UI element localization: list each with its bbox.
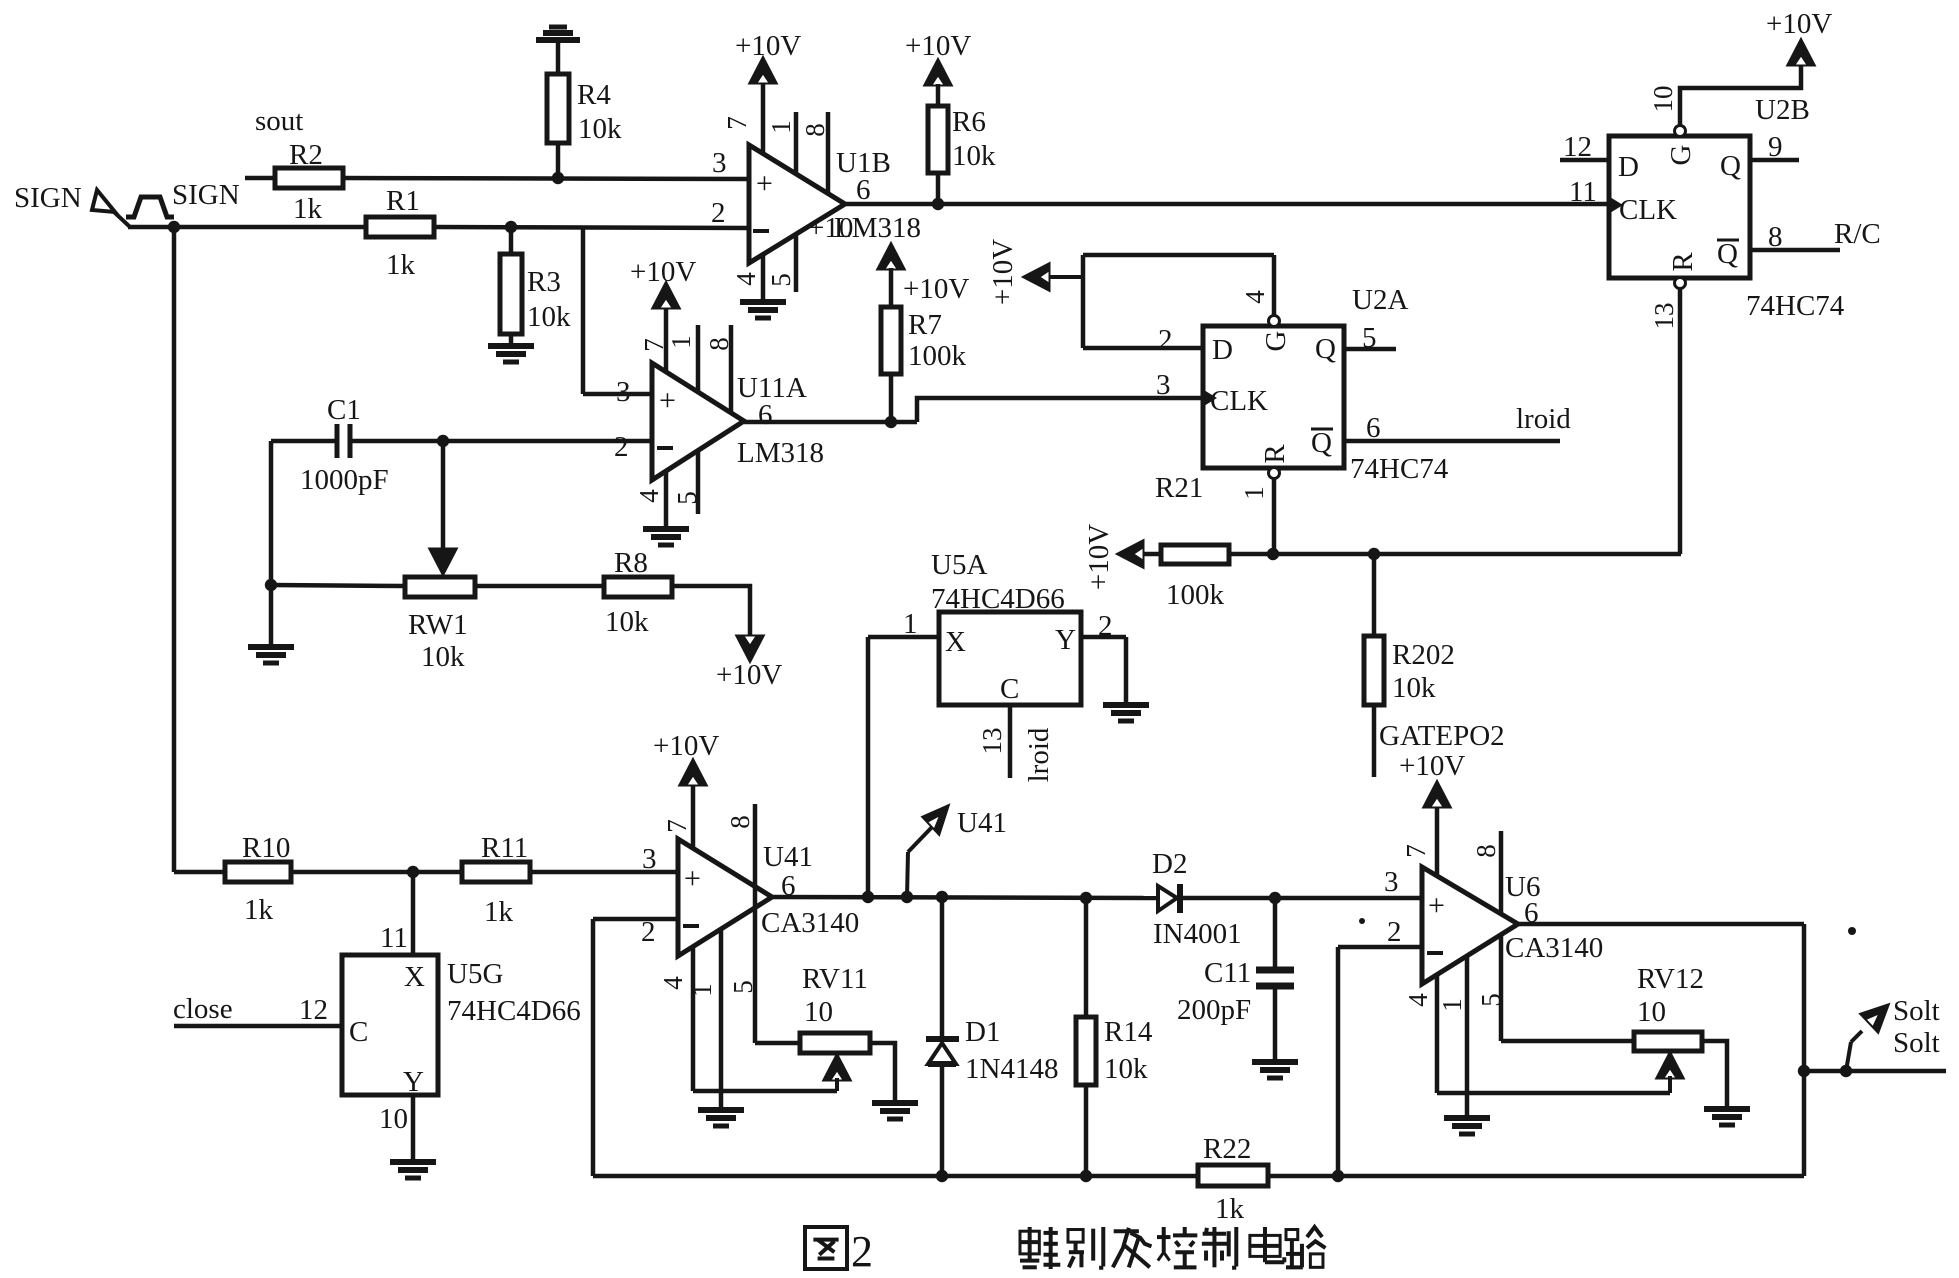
wire C11 top lead [1273,898,1278,970]
svg-text:R3: R3 [527,266,561,298]
wire jog to U2A CLK [917,398,1203,422]
resistor R6 [928,106,996,173]
svg-text:1k: 1k [244,894,274,926]
wire U41 feedback vertical [591,919,596,1176]
pin 7 U1B [722,80,763,154]
wire R11 to U41 pin3 [530,870,678,875]
wire C1 left lead [271,439,337,444]
svg-text:1k: 1k [293,193,323,225]
wire R2 to U1B pin3 [343,178,750,179]
svg-text:10: 10 [1648,86,1678,113]
wire U2B R to reset line [1649,288,1680,554]
resistor R14 [1076,1016,1153,1085]
svg-text:6: 6 [758,399,773,431]
svg-text:lroid: lroid [1516,403,1571,435]
svg-text:1: 1 [687,983,717,997]
junction R14/output [1080,892,1092,904]
junction R6/output [932,198,944,210]
pin 5 U6 [1476,935,1506,1041]
power +10V at U2A D/G [987,239,1083,305]
wire RV11 right to ground [870,1043,895,1103]
pin 8 U41 [725,804,755,887]
svg-text:10k: 10k [952,140,996,172]
wire D1 bottom lead [940,1064,945,1176]
svg-text:U5A: U5A [931,549,987,581]
svg-text:LM318: LM318 [737,437,824,469]
svg-text:IN4001: IN4001 [1153,918,1242,950]
node SIGN wire label [172,179,240,211]
pin 2 label U1B [711,197,726,229]
wire R3 to ground [509,334,514,346]
pin 12 U2B wire [1560,131,1609,163]
junction Solt/feedback [1798,1065,1810,1077]
svg-text:Q: Q [1315,333,1336,365]
svg-text:CLK: CLK [1619,194,1677,226]
svg-text:CLK: CLK [1210,385,1268,417]
pin 3 label U11A [616,376,631,408]
power +10V at U6 pin7 [1399,750,1465,807]
pin 8 U6 [1471,831,1501,914]
wire U2A R to reset line [1239,478,1274,554]
svg-text:R14: R14 [1104,1016,1153,1048]
svg-text:100k: 100k [908,340,967,372]
svg-text:R: R [1259,444,1291,464]
RV11 wiper arrow [824,1055,850,1091]
junction Solt-flag/wire [1840,1065,1852,1077]
wire pin5 to RV11 [755,1041,800,1046]
svg-text:10: 10 [804,996,833,1028]
node SIGN input label [14,182,82,214]
svg-text:13: 13 [1649,303,1679,330]
svg-text:1: 1 [766,120,796,134]
svg-text:+10V: +10V [903,273,969,305]
svg-text:R8: R8 [614,547,648,579]
svg-text:12: 12 [1563,131,1592,163]
pin 6 U2A wire (Qbar) [1344,412,1560,444]
resistor R7 [881,307,967,374]
resistor R21 100k [1155,472,1229,611]
diode D2 IN4001 [1152,848,1242,950]
svg-text:6: 6 [856,174,871,206]
svg-text:+10V: +10V [1083,524,1115,590]
wire R21 to U2B pin13 drop [1229,552,1681,557]
svg-text:8: 8 [704,337,734,351]
wire U6 feedback vertical [1802,924,1807,1176]
svg-text:3: 3 [1156,369,1171,401]
analog switch U5G [342,955,581,1098]
svg-text:74HC4D66: 74HC4D66 [447,995,581,1027]
speck [1359,918,1856,935]
wire left rail [172,227,177,872]
junction D1/output [936,891,948,903]
resistor R11 [462,832,530,928]
junction C1/RW1-wiper [437,435,449,447]
svg-text:RV12: RV12 [1637,963,1704,995]
net R/C label [1834,218,1881,250]
svg-text:+: + [756,167,773,200]
wire U1B output to U2B CLK [845,202,1609,207]
svg-text:SIGN: SIGN [172,179,240,211]
svg-text:10k: 10k [578,113,622,145]
pin 4 U6 [1403,975,1437,1093]
svg-text:1000pF: 1000pF [300,464,389,496]
wire C11 bottom lead [1273,986,1278,1062]
pin 2 U2A wire (D) [1083,324,1203,356]
svg-text:7: 7 [722,116,752,130]
svg-text:10k: 10k [1104,1053,1148,1085]
svg-text:R4: R4 [577,79,611,111]
svg-text:+: + [1428,889,1445,922]
wire R3 top lead [509,227,514,254]
svg-text:1k: 1k [1215,1193,1245,1225]
pin 3 label U41 [642,843,657,875]
pin 2 U5A [1081,610,1126,705]
power +10V at R7 [878,244,969,305]
svg-text:LM318: LM318 [834,212,921,244]
pin 3 label U1B [712,147,727,179]
junction R14/bottom [1080,1170,1092,1182]
ground above R4 (inverted) [536,27,580,74]
wire wiper arrow down [430,441,456,574]
svg-text:R10: R10 [242,832,290,864]
pin 4 U11A [634,471,666,529]
op-amp U11A [652,363,824,480]
svg-text:3: 3 [712,147,727,179]
svg-text:1N4148: 1N4148 [965,1053,1058,1085]
svg-text:100k: 100k [1166,579,1225,611]
wire D1 top lead [940,897,945,1039]
op-amp U6 [1422,867,1603,984]
svg-text:74HC4D66: 74HC4D66 [931,583,1065,615]
diode D1 1N4148 [926,1016,1058,1085]
ground below U5G pin10 [390,1162,436,1178]
svg-text:R202: R202 [1392,639,1455,671]
resistor R8 [604,547,672,638]
pin 3 label U6 [1384,866,1399,898]
ground below U41 pin1 [698,1110,744,1126]
wire G loop [1083,255,1274,348]
power +10V at U2B pin10 [1766,8,1832,65]
junction C11/wire [1269,892,1281,904]
svg-text:2: 2 [1387,916,1402,948]
svg-text:D1: D1 [965,1016,1000,1048]
wire U41 pin2 [593,917,678,922]
svg-text:C: C [349,1016,368,1048]
wire R7 to junction [889,374,894,422]
svg-text:10: 10 [1637,996,1666,1028]
ground below R3 [488,346,534,362]
pin 1 U11A [666,325,698,392]
svg-text:+: + [684,862,701,895]
svg-text:2: 2 [851,1227,873,1276]
svg-text:CA3140: CA3140 [1505,932,1603,964]
svg-text:2: 2 [711,197,726,229]
svg-text:3: 3 [1384,866,1399,898]
svg-text:R: R [1667,252,1699,272]
wire U6 pin2 [1338,947,1422,1176]
wire to U11A pin3 [583,227,652,394]
potentiometer RV12 [1634,963,1704,1051]
svg-text:U2B: U2B [1755,94,1810,126]
svg-text:R22: R22 [1203,1133,1251,1165]
svg-text:R2: R2 [289,139,323,171]
pin 2 label U6 [1387,916,1402,948]
svg-text:RV11: RV11 [802,963,868,995]
ground below C11 [1252,1062,1298,1078]
wire bottom feedback right [1268,1174,1804,1179]
resistor R3 [500,254,571,334]
wire R10 to R11 [291,870,462,875]
capacitor C11 [1177,957,1294,1026]
svg-text:7: 7 [1401,844,1431,858]
svg-text:RW1: RW1 [408,609,468,641]
pin 1 U1B [766,112,796,174]
op-amp U1B [749,145,921,263]
flip-flop U2A 74HC74 [1203,284,1449,485]
svg-text:11: 11 [380,922,408,954]
svg-text:4: 4 [1403,993,1433,1007]
junction U2A-R/wire [1267,548,1279,560]
svg-text:8: 8 [1768,221,1783,253]
svg-text:1: 1 [903,608,918,640]
svg-text:Y: Y [403,1066,424,1098]
svg-text:1k: 1k [484,896,514,928]
svg-text:R1: R1 [386,185,420,217]
pin 8 U1B [800,112,830,194]
svg-text:+: + [659,384,676,417]
svg-text:10k: 10k [1392,672,1436,704]
pin 10 U2B (G) inverter circle [1675,126,1686,137]
wire R14 top lead [1084,898,1089,1017]
svg-text:R11: R11 [481,832,528,864]
svg-text:9: 9 [1768,131,1783,163]
svg-text:10k: 10k [527,301,571,333]
pin 5 U11A [672,451,702,514]
junction U41-flag/output [901,891,913,903]
capacitor C1 [300,394,389,496]
ground below RV12 [1704,1109,1750,1125]
svg-text:+10V: +10V [1399,750,1465,782]
pin 2 label U11A [614,431,629,463]
pin 7 U41 [662,784,693,848]
svg-text:5: 5 [1362,322,1377,354]
wire U6 output [1518,922,1804,927]
net flag Solt [1846,995,1940,1071]
junction U5A-riser/output [862,891,874,903]
svg-text:Q: Q [1717,238,1738,270]
svg-text:4: 4 [1240,290,1270,304]
potentiometer RW1 [405,577,475,673]
wire arrow to R6 [936,84,941,106]
svg-text:13: 13 [977,728,1007,755]
svg-text:10k: 10k [605,606,649,638]
net lroid label [1516,403,1571,435]
wire C1 to U11A pin2 [350,439,652,444]
pin 13 U5A [977,705,1010,778]
wire Solt out [1804,1069,1946,1074]
wire RV12 right to ground [1702,1041,1727,1109]
svg-text:2: 2 [1158,324,1173,356]
ground below RW1 node [248,647,294,663]
wire R4 to junction [556,143,561,178]
svg-text:2: 2 [614,431,629,463]
pin 7 U11A [639,306,669,372]
power +10V at U41 pin7 [653,730,719,785]
pin 4 U2A (G) inverter circle [1269,316,1280,327]
pin 5 U1B [766,233,796,292]
wire pin5 to RV12 [1501,1039,1634,1044]
analog switch U5A [931,549,1081,705]
svg-text:C: C [1000,673,1019,705]
svg-text:5: 5 [728,980,758,994]
svg-text:6: 6 [1366,412,1381,444]
net lroid label (rotated) [1023,727,1055,782]
svg-text:74HC74: 74HC74 [1350,453,1449,485]
pin 2 label U41 [641,916,656,948]
svg-text:10k: 10k [421,641,465,673]
svg-text:lroid: lroid [1023,727,1055,782]
wire U41 output [772,897,1158,898]
svg-text:R/C: R/C [1834,218,1881,250]
svg-text:3: 3 [642,843,657,875]
pin 10 U5G [379,1095,413,1162]
svg-text:U41: U41 [957,807,1007,839]
power +10V at R21 (left arrow) [1083,524,1143,590]
wire wiper to U41 pin4 [693,1089,837,1094]
svg-text:200pF: 200pF [1177,994,1251,1026]
svg-text:Q: Q [1720,150,1741,182]
svg-text:+10V: +10V [653,730,719,762]
junction R3/wire [505,221,517,233]
svg-text:R7: R7 [908,309,942,341]
svg-text:Solt: Solt [1893,1027,1940,1059]
pin 5 U2A wire (Q) [1344,322,1396,354]
flip-flop U2B 74HC74 [1609,94,1845,322]
pin 1 U41 [687,929,721,1110]
wire C1 left vertical [269,441,274,585]
svg-text:CA3140: CA3140 [761,907,859,939]
svg-text:+10V: +10V [735,30,801,62]
svg-text:G: G [1260,330,1292,351]
ground below U5A pin2 [1103,705,1149,721]
wire close to U5G pin12 [174,1024,342,1029]
potentiometer RV11 [800,963,870,1053]
svg-text:1k: 1k [386,249,416,281]
svg-text:5: 5 [766,273,796,287]
wire pin10 to +10V [1648,64,1801,126]
junction R4/wire [552,172,564,184]
pin 1 U2A (R) inverter circle [1269,468,1280,479]
junction D1/bottom [936,1170,948,1182]
ground below RV11 [872,1103,918,1119]
svg-text:2: 2 [1098,610,1113,642]
svg-text:5: 5 [1476,993,1506,1007]
svg-text:Q: Q [1311,427,1332,459]
power +10V below R8 (down arrow) [716,636,782,691]
svg-text:4: 4 [731,272,761,286]
junction R10/R11/U5G [407,866,419,878]
junction U6-pin2/bottom [1332,1170,1344,1182]
svg-text:1: 1 [1239,486,1269,500]
wire wiper to U6 pin4 [1437,1091,1670,1096]
svg-text:+10V: +10V [630,256,696,288]
pin 8 U2B wire (Qbar) [1750,221,1840,253]
resistor R22 [1198,1133,1268,1225]
wire D2 to U6 pin3 [1180,896,1422,901]
svg-text:close: close [173,993,233,1025]
svg-text:sout: sout [255,105,303,137]
junction SIGN/left-rail [168,221,180,233]
ground below U6 pin1 [1444,1118,1490,1134]
pin 3 label U2A [1156,369,1171,401]
wire R202 bottom lead (GATEPO2) [1372,705,1377,777]
svg-text:U2A: U2A [1352,284,1408,316]
svg-text:+10V: +10V [987,239,1019,305]
power +10V at U11A pin7 [630,256,696,308]
SIGN input flag arrow [92,190,130,227]
resistor R2 [275,139,343,225]
svg-text:4: 4 [634,489,664,503]
svg-text:1: 1 [666,335,696,349]
svg-text:U41: U41 [763,841,813,873]
ground below U1B pin4 [740,302,786,318]
pin 7 U6 [1401,806,1437,876]
svg-text:Y: Y [1055,624,1076,656]
pin 12 label U5G [299,994,328,1026]
svg-text:R6: R6 [952,106,986,138]
net GATEPO2 label [1379,720,1505,752]
net flag U41 [907,806,1007,897]
caption 图2 甄别及控制电路 [805,1227,1325,1276]
resistor R10 [225,832,291,926]
resistor R202 [1364,636,1455,705]
svg-text:+10V: +10V [716,659,782,691]
pin 5 U41 [728,887,758,1043]
wire R1 to U1B pin2 [434,227,750,228]
svg-text:7: 7 [662,819,692,833]
svg-text:3: 3 [616,376,631,408]
svg-text:X: X [945,626,966,658]
pulse waveform symbol [126,197,174,217]
svg-text:10: 10 [379,1103,408,1135]
pin 4 U41 [658,947,693,1091]
op-amp U41 [678,839,859,956]
wire arrow to R7 [889,268,894,307]
power +10V at U1B pin7 [735,30,801,83]
junction R202/wire [1368,548,1380,560]
pin 11 label U2B [1569,176,1597,208]
wire ground stub [269,585,274,647]
wire R6 to output line [936,173,941,204]
junction RW1-left/ground [265,579,277,591]
power +10V at R6 [905,30,971,85]
wire R8 to +10V [672,586,750,637]
wire rail to R10 [174,870,225,875]
wire R14 bottom lead [1084,1085,1089,1176]
pin 1 U6 [1437,956,1467,1118]
svg-text:+10V: +10V [905,30,971,62]
wire to RW1 [271,585,405,586]
svg-text:5: 5 [672,491,702,505]
svg-text:D: D [1618,151,1639,183]
RV12 wiper arrow [1657,1053,1683,1093]
node sout label [255,105,303,137]
svg-text:74HC74: 74HC74 [1746,290,1845,322]
ground below U11A pin4 [643,529,689,545]
wire arrow to R21 [1143,552,1161,557]
svg-text:C1: C1 [327,394,361,426]
junction R7/output [885,416,897,428]
